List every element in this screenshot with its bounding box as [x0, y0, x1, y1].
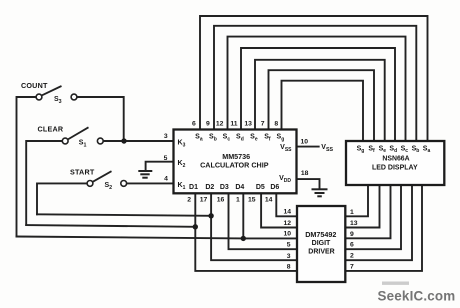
wire driver pin 13 to display [345, 185, 379, 228]
wire CLEAR net to node D1 [26, 225, 195, 227]
wire driver pin 7 to display [345, 185, 422, 271]
svg-text:CLEAR: CLEAR [38, 125, 64, 134]
svg-text:LED DISPLAY: LED DISPLAY [372, 165, 418, 172]
svg-text:D3: D3 [220, 184, 229, 191]
wire chip pin 18 to ground [297, 179, 320, 188]
switch S1 CLEAR [38, 125, 104, 149]
svg-text:DM75492: DM75492 [305, 230, 336, 239]
svg-text:MM5736: MM5736 [222, 152, 250, 161]
wire D5 to driver pin 12 [261, 193, 297, 227]
ground at chip pin 5 K2 [138, 171, 152, 178]
wire COUNT net to driver pin 10 [17, 237, 298, 239]
svg-text:8: 8 [287, 263, 291, 270]
switch S3 COUNT [21, 81, 77, 105]
digit driver U2 DM75492 [297, 206, 345, 282]
junction node S3 vertical / K3 net [121, 138, 126, 143]
svg-text:3: 3 [287, 253, 291, 260]
ground at chip pin 18 VDD [312, 189, 328, 196]
junction node CLEAR net / D1 [193, 224, 198, 229]
svg-text:SeekIC.com: SeekIC.com [378, 288, 456, 303]
svg-text:START: START [70, 167, 95, 176]
wire chip pin 5 K2 to ground [146, 162, 174, 170]
wire chip pin 10 to VSS [297, 146, 319, 148]
svg-text:9: 9 [350, 231, 354, 238]
wire segment loop Sc (chip pin 12 to display Sc) [228, 37, 406, 141]
svg-text:4: 4 [164, 175, 168, 182]
wire segment loop Sa (chip pin 6 to display Sa) [200, 16, 428, 141]
svg-text:NSN66A: NSN66A [382, 155, 409, 162]
svg-text:6: 6 [192, 121, 196, 128]
wire segment loop Sf (chip pin 7 to display Sf) [269, 70, 375, 141]
svg-text:3: 3 [164, 133, 168, 140]
wire S3 right contact over to K3 net [77, 97, 124, 141]
wire START net to node D2 [37, 214, 211, 216]
svg-text:13: 13 [350, 220, 358, 227]
wire S2 right contact to chip pin 4 K1 [127, 182, 174, 184]
wire D2 to driver pin 3 [211, 193, 297, 260]
svg-text:D2: D2 [205, 184, 214, 191]
svg-text:D5: D5 [256, 184, 265, 191]
svg-text:COUNT: COUNT [21, 81, 48, 90]
switch S2 START [70, 167, 127, 191]
svg-text:14: 14 [265, 197, 273, 204]
svg-text:12: 12 [283, 220, 291, 227]
wire S2 left pole down to START net [37, 183, 87, 214]
wire segment loop Sd (chip pin 11 to display Sd) [241, 48, 395, 141]
svg-text:2: 2 [350, 253, 354, 260]
wire D6 to driver pin 14 [276, 193, 297, 216]
wire driver pin 6 to display [345, 185, 401, 249]
wire driver pin 9 to display [345, 185, 390, 238]
wire segment loop Sg (chip pin 8 to display Sg) [282, 81, 364, 141]
svg-text:12: 12 [216, 121, 224, 128]
svg-text:9: 9 [206, 121, 210, 128]
svg-text:15: 15 [248, 197, 256, 204]
svg-text:D1: D1 [189, 184, 198, 191]
svg-text:5: 5 [164, 155, 168, 162]
svg-text:10: 10 [283, 231, 291, 238]
svg-text:7: 7 [261, 121, 265, 128]
svg-text:1: 1 [350, 209, 354, 216]
calculator chip U1 MM5736 [174, 130, 297, 194]
svg-text:10: 10 [301, 138, 309, 145]
wire D4 down to COUNT net [242, 193, 244, 238]
svg-text:17: 17 [200, 197, 208, 204]
svg-text:18: 18 [301, 170, 309, 177]
wire segment loop Se (chip pin 13 to display Se) [255, 60, 385, 141]
svg-text:DRIVER: DRIVER [308, 248, 334, 255]
wire D3 to driver pin 5 [229, 193, 298, 249]
wire S3 left pole down to COUNT net [17, 97, 37, 237]
svg-text:2: 2 [187, 197, 191, 204]
svg-text:16: 16 [217, 197, 225, 204]
svg-text:D4: D4 [235, 184, 244, 191]
svg-text:6: 6 [350, 242, 354, 249]
svg-text:11: 11 [230, 121, 237, 128]
LED display U3 NSN66A [346, 141, 444, 185]
svg-text:DIGIT: DIGIT [312, 240, 331, 247]
wire driver pin 1 to display [345, 185, 368, 216]
wire driver pin 2 to display [345, 185, 412, 260]
svg-text:CALCULATOR CHIP: CALCULATOR CHIP [200, 161, 269, 170]
svg-text:1: 1 [236, 197, 240, 204]
junction node START net / D2 [208, 213, 213, 218]
wire S1 right contact to chip pin 3 K3 [103, 140, 173, 142]
svg-text:7: 7 [350, 263, 354, 270]
svg-text:8: 8 [274, 121, 278, 128]
svg-text:14: 14 [283, 208, 291, 215]
svg-text:5: 5 [287, 242, 291, 249]
wire S1 left pole down to CLEAR net [26, 141, 62, 225]
wire segment loop Sb (chip pin 9 to display Sb) [214, 26, 416, 141]
svg-text:D6: D6 [270, 184, 279, 191]
junction node D4 / COUNT net [241, 236, 246, 241]
svg-text:13: 13 [244, 121, 252, 128]
wire D1 to driver pin 8 [195, 193, 297, 271]
